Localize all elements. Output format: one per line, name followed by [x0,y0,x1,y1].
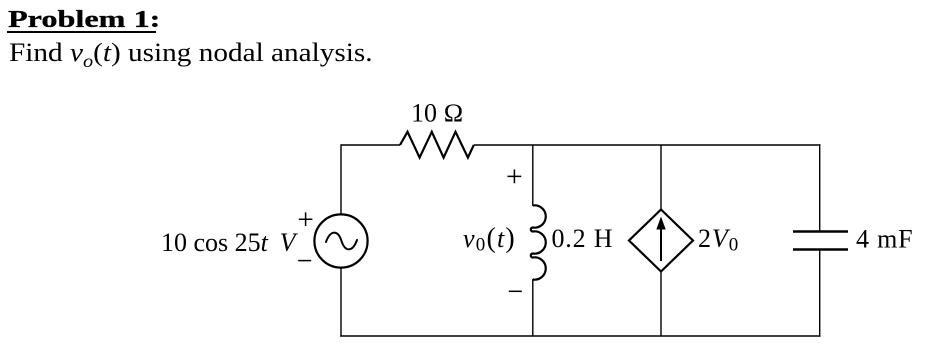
inductor L 0.2H coil [531,205,546,279]
node label plus above vo(t) [508,170,522,184]
wire: left vertical below source [340,269,342,337]
capacitor C 4mF bottom plate [793,248,848,250]
svg-text:10 Ω: 10 Ω [411,99,463,128]
svg-text:2V0: 2V0 [698,224,739,256]
wire: bottom horizontal [340,335,820,337]
source Vs: sine wave [326,233,357,250]
svg-text:0.2 H: 0.2 H [552,224,614,253]
svg-text:4 mF: 4 mF [856,224,913,253]
title underline [7,31,156,33]
dependent current source arrow [660,227,662,261]
wire: top-left horizontal segment [341,144,400,146]
wire: current source branch lower [660,271,662,336]
source Vs: AC voltage source circle [314,214,367,267]
subtitle: Find vo(t) using nodal analysis. [9,38,373,72]
capacitor C 4mF top plate [793,230,848,232]
wire: right vertical below capacitor [819,250,821,337]
resistor R 10ohm zigzag [400,132,474,158]
wire: top horizontal from resistor to top-right corner [474,144,821,146]
dependent current source U1 diamond [629,210,693,272]
svg-text:v0(t): v0(t) [463,223,516,256]
node label minus below vo(t) [509,290,522,292]
wire: current source branch upper [660,145,662,210]
title: Problem 1: [8,6,160,34]
svg-text:10 cos 25t V: 10 cos 25t V [161,228,299,257]
wire: left vertical above source [340,144,342,214]
wire: inductor branch lower [532,279,534,336]
wire: right vertical above capacitor [819,144,821,231]
wire: inductor branch upper [532,145,534,206]
source Vs: plus polarity [299,212,313,226]
source Vs: minus polarity [298,260,311,262]
